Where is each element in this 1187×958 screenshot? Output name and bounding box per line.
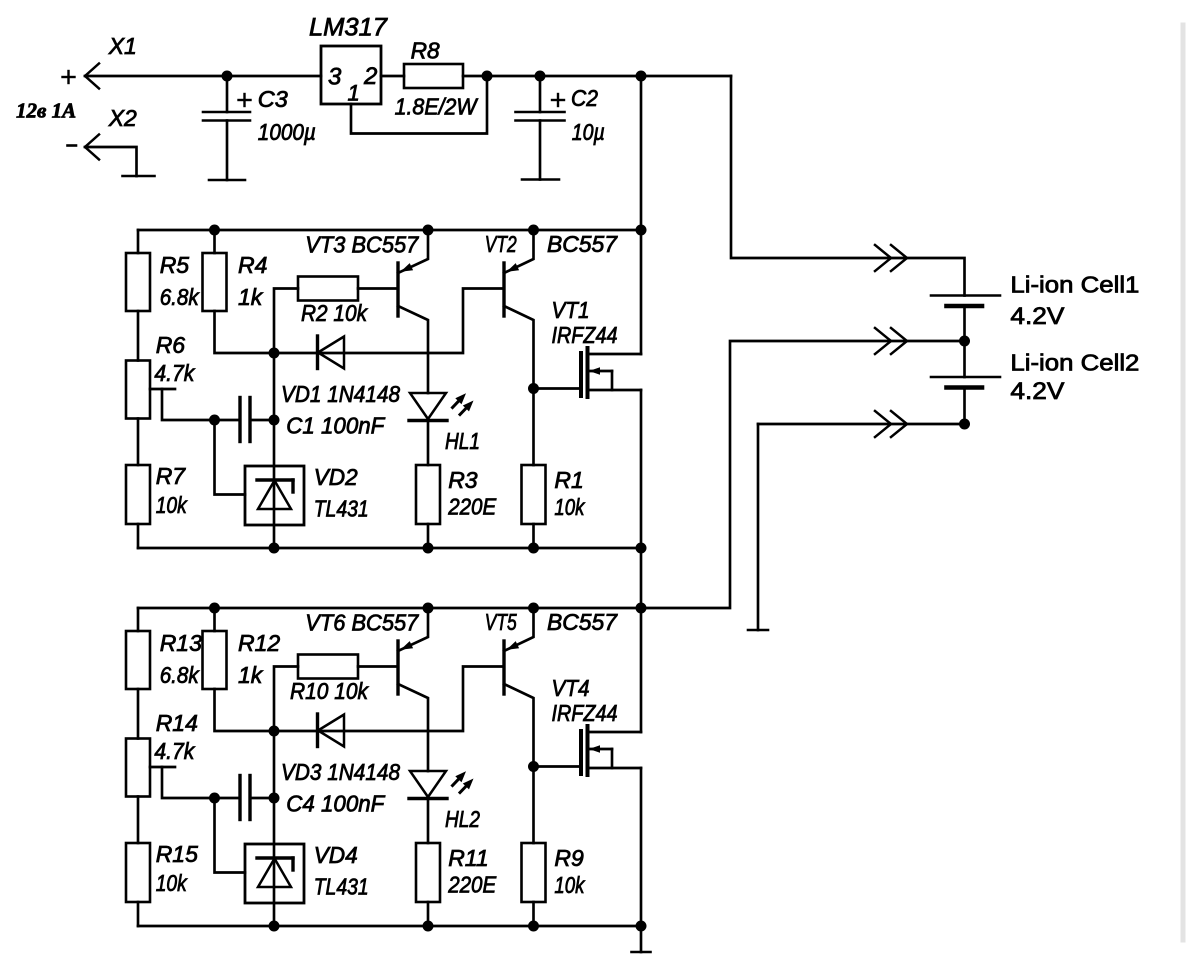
svg-text:4.7k: 4.7k	[154, 360, 195, 386]
svg-text:VD4: VD4	[314, 842, 358, 868]
svg-text:R1: R1	[554, 467, 583, 493]
svg-text:R13: R13	[160, 630, 202, 656]
svg-text:R5: R5	[160, 252, 190, 278]
svg-text:X2: X2	[108, 105, 137, 131]
svg-text:LM317: LM317	[309, 14, 388, 42]
svg-text:4.2V: 4.2V	[1010, 303, 1064, 330]
svg-text:1: 1	[348, 81, 360, 106]
svg-text:220E: 220E	[447, 872, 496, 898]
svg-text:6.8k: 6.8k	[160, 284, 200, 310]
svg-text:10µ: 10µ	[572, 119, 605, 145]
svg-text:X1: X1	[108, 33, 137, 59]
svg-text:VT1: VT1	[552, 297, 590, 323]
svg-text:VT2: VT2	[485, 231, 517, 257]
svg-text:Li-ion Cell2: Li-ion Cell2	[1010, 350, 1139, 376]
svg-text:1000µ: 1000µ	[258, 119, 316, 145]
svg-text:VT6 BC557: VT6 BC557	[305, 610, 419, 636]
svg-text:IRFZ44: IRFZ44	[552, 322, 618, 348]
svg-text:R14: R14	[156, 710, 198, 736]
svg-text:R3: R3	[448, 467, 478, 493]
svg-text:IRFZ44: IRFZ44	[552, 700, 618, 726]
svg-text:TL431: TL431	[314, 874, 369, 900]
svg-text:R10 10k: R10 10k	[290, 678, 369, 704]
svg-text:R6: R6	[156, 332, 186, 358]
svg-text:VD1 1N4148: VD1 1N4148	[281, 381, 400, 407]
svg-text:R11: R11	[448, 845, 489, 871]
svg-text:R12: R12	[238, 630, 280, 656]
svg-text:VT5: VT5	[485, 609, 517, 635]
svg-text:C2: C2	[571, 85, 598, 111]
svg-text:HL1: HL1	[445, 428, 480, 454]
svg-text:VT3 BC557: VT3 BC557	[305, 232, 419, 258]
svg-text:BC557: BC557	[547, 609, 618, 635]
svg-text:1k: 1k	[238, 662, 264, 688]
svg-text:TL431: TL431	[314, 496, 369, 522]
svg-text:R4: R4	[238, 252, 267, 278]
svg-text:VD3 1N4148: VD3 1N4148	[281, 759, 400, 785]
svg-text:10k: 10k	[156, 870, 188, 896]
svg-text:R9: R9	[554, 845, 584, 871]
svg-text:220E: 220E	[447, 494, 496, 520]
svg-text:4.2V: 4.2V	[1010, 378, 1064, 405]
svg-text:10k: 10k	[554, 872, 585, 898]
svg-text:10k: 10k	[156, 492, 188, 518]
svg-text:10k: 10k	[554, 494, 585, 520]
svg-text:1k: 1k	[238, 284, 264, 310]
svg-text:C1 100nF: C1 100nF	[286, 413, 386, 439]
svg-text:C4 100nF: C4 100nF	[286, 791, 386, 817]
svg-text:Li-ion Cell1: Li-ion Cell1	[1010, 272, 1139, 298]
svg-text:HL2: HL2	[445, 806, 480, 832]
svg-text:1.8E/2W: 1.8E/2W	[395, 94, 479, 120]
svg-text:R2 10k: R2 10k	[301, 300, 368, 326]
svg-text:4.7k: 4.7k	[154, 738, 195, 764]
svg-text:VD2: VD2	[314, 464, 358, 490]
svg-text:VT4: VT4	[552, 675, 590, 701]
svg-text:R15: R15	[156, 841, 198, 867]
svg-text:R8: R8	[411, 38, 440, 64]
svg-text:3: 3	[328, 64, 342, 91]
svg-text:BC557: BC557	[547, 231, 618, 257]
svg-text:R7: R7	[156, 463, 187, 489]
svg-text:2: 2	[363, 63, 377, 90]
svg-text:C3: C3	[258, 86, 288, 112]
svg-text:12в 1А: 12в 1А	[16, 99, 76, 123]
svg-text:6.8k: 6.8k	[160, 662, 200, 688]
